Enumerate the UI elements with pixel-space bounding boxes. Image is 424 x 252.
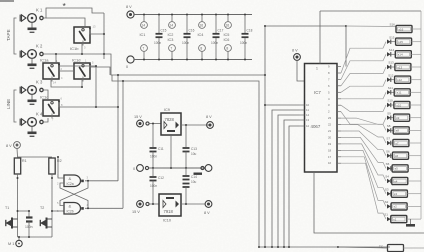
svg-text:C14: C14 [191,175,197,179]
wire K3 to IC1c [43,90,48,100]
wire IC1c out to x118 [59,102,118,108]
svg-text:IC10: IC10 [163,219,171,223]
svg-text:100n: 100n [182,41,189,45]
wire +8V to IC7 [297,60,305,81]
switch S16 row [396,25,412,32]
ground under K3 [31,94,33,99]
multiplexer IC7 4067 [305,64,338,173]
svg-text:IC7: IC7 [314,90,321,95]
svg-text:S6: S6 [386,149,390,153]
wire IC1b out to bus [90,29,104,35]
wire address line x265 tap [265,104,300,106]
terminal +15V [137,120,149,127]
wire to ground terminal [18,237,20,240]
gate IC2a [64,175,84,187]
svg-text:s14: s14 [398,53,403,57]
svg-text:IC9: IC9 [164,108,170,112]
wire pin to row1 vertical [345,26,347,67]
wire IC1b bottom [81,43,83,54]
terminal 0V mid left [137,165,149,172]
terminal +8V right [294,54,301,61]
resistor R2 [49,158,55,174]
switch S6 row [387,154,391,158]
IC7 left pin stubs [300,105,305,126]
svg-text:23: 23 [328,116,332,120]
ground under K1 [31,22,33,27]
svg-text:100n: 100n [150,155,157,159]
gate IC2b [64,203,84,215]
ground under K4 [31,126,33,131]
wire IC1a to IC1d [59,70,74,72]
connector K4 phono jack [20,118,43,127]
wire 0V rail [134,59,252,61]
svg-text:s13: s13 [397,65,402,69]
svg-text:s2: s2 [394,205,398,209]
svg-text:19: 19 [328,142,332,146]
scan artifact top edge [0,0,14,2]
svg-text:14: 14 [141,23,145,27]
svg-text:7828: 7828 [165,117,175,122]
svg-text:0: 0 [133,167,135,171]
analog switch IC1d [74,63,90,82]
svg-text:K 2: K 2 [36,44,43,49]
switch S11 row [387,90,391,94]
svg-text:S4: S4 [385,175,389,179]
switch S14 row [387,52,391,56]
svg-text:S8: S8 [387,124,391,128]
svg-text:C12: C12 [158,176,164,180]
wire IC1d out to bus x110 [90,65,110,76]
svg-text:s4: s4 [394,179,398,183]
wire K1 to IC1b [46,18,85,27]
wire IC9 output [181,124,210,126]
analog switch IC1b [74,27,90,46]
svg-text:S10: S10 [387,99,393,103]
wire address line x272 [272,110,300,247]
svg-text:s6: s6 [395,154,399,158]
wire bus x96 [95,66,97,107]
svg-text:12: 12 [306,124,310,128]
wire to C14 [185,168,187,175]
wire T2 node to IC2b [52,210,64,212]
svg-text:IC1: IC1 [140,33,146,37]
wire to IC1a top [55,54,57,63]
svg-text:s16: s16 [399,27,404,31]
ground bar bottom right [406,224,415,227]
svg-text:S11: S11 [388,86,393,90]
svg-text:100n: 100n [150,184,157,188]
capacitor C11 [150,148,157,152]
svg-text:s11: s11 [397,91,402,95]
wire K1 up [43,12,46,18]
wire top bracket [46,8,104,13]
wire control A vertical [264,26,266,247]
connector K2 phono jack [20,50,43,59]
svg-text:14: 14 [169,23,173,27]
svg-text:K 3: K 3 [36,80,43,85]
junction dots bottom rail [18,236,30,238]
wire C1 bottom [28,222,30,238]
svg-text:16: 16 [199,23,203,27]
svg-text:16: 16 [225,23,229,27]
terminal +8V supply [127,11,134,18]
cross coupling latch [60,181,88,206]
capacitor C14b plates [183,184,190,188]
capacitor C18 decoupling [242,15,249,60]
svg-text:1: 1 [316,67,318,71]
IC7 right pin stubs [337,67,341,164]
svg-text:S3: S3 [385,187,389,191]
svg-text:11: 11 [306,108,309,112]
wire +8V rail [134,14,252,16]
fan wires IC7 to switches [341,26,397,219]
wire supply to resistors [17,148,52,157]
junction dots bottom bus [258,246,339,248]
svg-text:15 V: 15 V [134,115,142,119]
regulator IC10 79L08 [159,194,181,216]
svg-text:LINE: LINE [6,99,11,109]
svg-text:K 1: K 1 [36,8,43,13]
svg-text:S12: S12 [388,73,394,77]
wire to C11 [152,124,154,148]
switch S8 row [387,128,391,132]
svg-text:10u: 10u [191,152,197,156]
wire to C13 [185,125,187,147]
wire IC1a bottom to IC1d bottom [51,79,82,87]
wire bus x104 [103,13,105,59]
capacitor C14 [183,176,190,180]
LINE group bracket [14,90,17,122]
wire R2 to T2 to rail [51,174,53,237]
svg-text:S1: S1 [384,213,388,217]
wire C11 down [152,152,154,169]
svg-text:S15: S15 [389,35,395,39]
svg-text:20: 20 [328,135,332,139]
svg-text:s8: s8 [396,129,400,133]
wire address line x284 [284,120,300,247]
svg-text:s10: s10 [396,103,401,107]
connector bottom right [388,245,404,252]
wire bus x118 [117,75,119,181]
svg-text:10: 10 [306,103,310,107]
terminal 0V supply [127,56,134,63]
switch common rail right [420,11,422,219]
supply pins IC1 [141,15,148,60]
svg-text:IC2a: IC2a [67,182,74,186]
svg-text:8 V: 8 V [6,144,12,148]
switch S12 row [387,78,391,82]
wire IC2a output [85,180,118,182]
svg-text:T1: T1 [5,206,9,210]
transistor T2 [40,218,52,229]
terminal -15V [137,201,149,208]
switch S10 row [387,103,391,107]
wire +15V to IC9 [149,123,161,125]
wire C14 down [185,187,187,204]
svg-text:C15: C15 [161,29,167,33]
switch S5 row [387,166,391,170]
wire to C12 [152,168,154,176]
switch S1 row [387,217,391,221]
terminal +8V bottom-left [14,142,21,149]
wire C13 down [185,152,187,169]
wire R1 to T1 to rail [17,174,19,237]
svg-text:IC5: IC5 [224,33,230,37]
capacitor C12 [150,177,157,181]
svg-text:10u: 10u [191,180,197,184]
wire IC9 gnd [170,135,172,168]
terminal 0V mid right [205,165,212,172]
svg-text:S16: S16 [390,23,396,27]
capacitor C1 mute [26,218,33,222]
terminal +8V out [207,122,214,129]
svg-text:8: 8 [200,46,202,50]
svg-text:S9: S9 [387,111,391,115]
svg-text:s3: s3 [394,192,398,196]
svg-text:16: 16 [328,161,332,165]
ground under K2 [31,58,33,63]
svg-text:7: 7 [142,46,144,50]
wire IC2a input [58,157,64,178]
svg-text:S2: S2 [385,200,389,204]
svg-text:T2: T2 [40,206,44,210]
wire address line x278 [278,115,300,247]
wire K4 to IC1c bottom [43,118,48,122]
pin number specks [52,25,96,214]
switch S2 row [387,204,391,208]
svg-text:&: & [69,176,72,181]
svg-text:C13: C13 [191,147,197,151]
svg-text:4067: 4067 [311,124,321,129]
svg-text:8 V: 8 V [204,211,210,215]
svg-text:IC1a: IC1a [40,58,49,63]
wire control B [112,75,259,247]
svg-text:8 V: 8 V [126,5,132,9]
capacitor C13 [183,148,190,152]
wire K2 row [43,53,104,55]
svg-text:K 4: K 4 [36,112,43,117]
svg-text:S14: S14 [389,48,395,52]
wire mid 0V rail [149,167,205,169]
wire T1 node to C1 [18,210,30,212]
switch S13 row [387,65,391,69]
switch S7 row [387,141,391,145]
svg-text:R1: R1 [22,159,27,163]
svg-text:8: 8 [226,46,228,50]
svg-text:100n: 100n [154,41,161,45]
switch S9 row [387,116,391,120]
svg-text:18: 18 [328,148,332,152]
wire address line x289 [289,126,300,247]
svg-text:IC2: IC2 [168,33,174,37]
wire source rail [18,236,53,238]
supply pins IC5/IC6 [225,15,232,60]
svg-text:7918: 7918 [164,209,174,214]
svg-text:IC4: IC4 [198,33,204,37]
svg-text:s15: s15 [398,40,403,44]
svg-text:C16: C16 [189,29,195,33]
svg-text:C18: C18 [247,29,253,33]
svg-text:TAPE: TAPE [6,29,11,41]
wire top supply to switch rail [320,10,421,12]
transistor T1 [6,218,18,229]
svg-text:IC1c: IC1c [40,95,48,100]
svg-text:IC1b: IC1b [70,46,79,51]
svg-text:14: 14 [306,113,310,117]
svg-text:s7: s7 [395,141,399,145]
wire IC7 common bottom [314,172,424,233]
TAPE group bracket [14,18,17,54]
svg-text:s9: s9 [396,116,400,120]
svg-text:s12: s12 [397,78,402,82]
wire IC1d bottom [81,79,83,87]
svg-text:IC2b: IC2b [67,209,74,213]
svg-text:S7: S7 [386,137,390,141]
wire bottom control bus [259,246,390,248]
svg-text:22: 22 [328,123,332,127]
svg-text:s1: s1 [393,217,397,221]
svg-text:M 1: M 1 [8,242,14,246]
terminal -8V out [205,201,212,208]
wire IC1a pin right [59,65,96,67]
wire C1 top [28,211,30,217]
svg-text:13: 13 [306,118,310,122]
junction dots power rails [143,14,246,61]
junction dots left buses [55,33,266,108]
svg-text:100n: 100n [211,41,218,45]
capacitor C15 decoupling [156,15,163,60]
supply pins IC2/IC3 [169,15,176,60]
terminal M bottom-left [16,240,22,246]
svg-text:8 V: 8 V [206,115,212,119]
svg-text:17: 17 [328,155,332,159]
svg-text:s5: s5 [395,167,399,171]
analog switch IC1c [43,100,59,119]
contact mid rail right [201,166,204,169]
junction dots address bus [264,104,266,106]
junction pins on switches [58,27,91,102]
svg-text:8 V: 8 V [292,49,298,53]
svg-text:C11: C11 [158,147,164,151]
switch S4 row [387,179,391,183]
ground bar mid rail [194,173,203,175]
svg-text:21: 21 [328,129,332,133]
svg-text:IC3: IC3 [168,38,174,42]
svg-text:0: 0 [126,65,128,69]
junction dots mid rail [152,123,187,170]
svg-text:15 V: 15 V [132,210,140,214]
svg-text:&: & [69,204,72,209]
wire C12 down [152,181,154,205]
svg-text:C17: C17 [218,29,224,33]
junction dots regulator bottom [152,203,187,205]
wire IC7 top feed [319,11,321,64]
wire row1 feed left [265,25,347,27]
junction dots below resistors [17,177,54,179]
junction dots mute nodes [17,210,54,212]
supply pins IC4 [199,15,206,60]
switch S15 row [387,40,391,44]
analog switch IC1a [43,63,59,82]
svg-text:IC6: IC6 [224,38,230,42]
svg-text:IC1d: IC1d [72,58,80,63]
junction dots top right [264,25,347,27]
svg-text:S13: S13 [388,61,394,65]
regulator IC9 78L08 [161,113,181,135]
junction dots gate outputs [57,156,89,209]
svg-text:100n: 100n [240,41,247,45]
wire bus x123 [122,81,124,208]
wire control A [104,54,265,75]
resistor R1 [14,158,20,174]
capacitor C16 decoupling [184,15,191,60]
capacitor C17 decoupling [213,15,220,60]
connector K1 phono jack [20,14,43,23]
wire -15V to IC10 [149,203,159,205]
wire IC2b output [85,207,123,209]
wire IC10 output [181,203,205,205]
svg-text:7: 7 [170,46,172,50]
connector K3 phono jack [20,86,43,95]
svg-text:S5: S5 [386,162,390,166]
switch S3 row [387,192,391,196]
